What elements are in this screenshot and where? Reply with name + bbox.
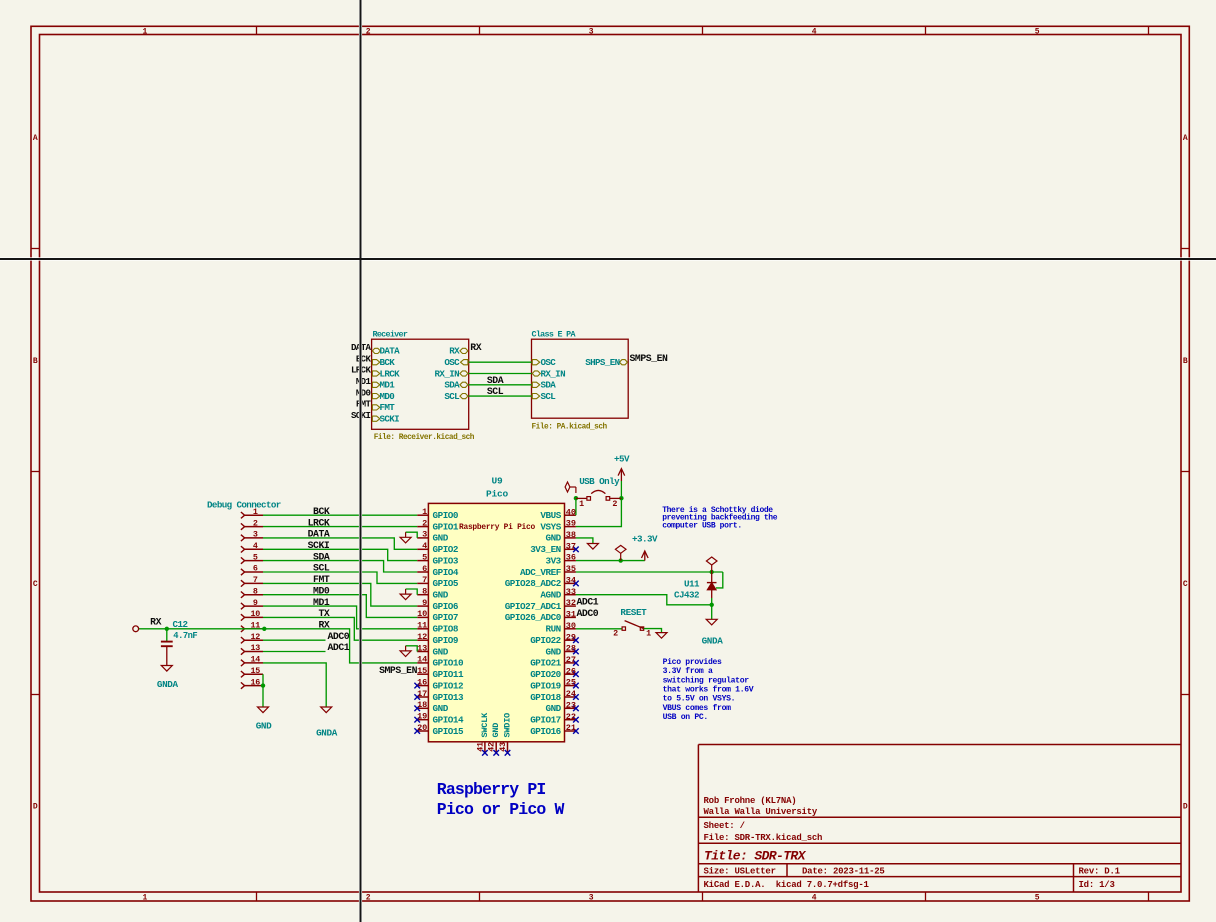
svg-text:39: 39 [566, 519, 576, 529]
svg-text:Raspberry Pi Pico: Raspberry Pi Pico [459, 523, 535, 532]
svg-text:6: 6 [422, 564, 427, 574]
svg-text:ADC0: ADC0 [328, 631, 350, 642]
svg-text:SDA: SDA [487, 375, 504, 386]
svg-text:3: 3 [253, 530, 258, 540]
svg-text:GPIO9: GPIO9 [433, 635, 459, 646]
svg-text:CJ432: CJ432 [674, 589, 699, 600]
svg-text:OSC: OSC [541, 357, 557, 368]
svg-text:MD0: MD0 [313, 585, 330, 596]
svg-text:GNDA: GNDA [702, 635, 724, 646]
svg-text:Pico or Pico W: Pico or Pico W [437, 800, 565, 819]
svg-text:8: 8 [422, 587, 427, 597]
svg-text:File: Receiver.kicad_sch: File: Receiver.kicad_sch [374, 434, 475, 442]
svg-text:SCKI: SCKI [308, 540, 330, 551]
svg-text:ADC0: ADC0 [577, 608, 599, 619]
svg-text:BCK: BCK [313, 506, 330, 517]
svg-text:RX: RX [449, 346, 460, 357]
svg-text:35: 35 [566, 564, 576, 574]
svg-text:9: 9 [253, 598, 258, 608]
svg-text:GNDA: GNDA [316, 728, 338, 739]
svg-text:GPIO10: GPIO10 [433, 658, 464, 669]
svg-text:1: 1 [646, 629, 651, 639]
svg-text:GPIO4: GPIO4 [433, 567, 459, 578]
svg-text:B: B [1183, 357, 1188, 366]
svg-text:GPIO2: GPIO2 [433, 544, 459, 555]
svg-text:MD1: MD1 [356, 376, 372, 387]
svg-text:Rob Frohne (KL7NA): Rob Frohne (KL7NA) [704, 796, 797, 806]
svg-text:ADC_VREF: ADC_VREF [520, 567, 562, 578]
svg-text:40: 40 [566, 507, 576, 517]
svg-text:BCK: BCK [380, 357, 396, 368]
svg-text:VSYS: VSYS [540, 521, 561, 532]
svg-text:Date: 2023-11-25: Date: 2023-11-25 [802, 867, 885, 877]
svg-text:GND: GND [433, 590, 449, 601]
svg-text:GND: GND [491, 723, 501, 738]
svg-text:RX_IN: RX_IN [541, 368, 566, 379]
svg-text:AGND: AGND [540, 590, 561, 601]
svg-text:2: 2 [253, 518, 258, 528]
svg-text:USB on PC.: USB on PC. [663, 713, 708, 722]
svg-text:B: B [33, 357, 38, 366]
svg-text:SDA: SDA [313, 551, 330, 562]
svg-text:GPIO22: GPIO22 [530, 635, 561, 646]
svg-text:GPIO1: GPIO1 [433, 521, 459, 532]
svg-text:C12: C12 [173, 619, 188, 630]
svg-text:31: 31 [566, 610, 576, 620]
svg-text:37: 37 [566, 541, 576, 551]
svg-text:2: 2 [366, 27, 371, 36]
svg-text:DATA: DATA [308, 529, 330, 540]
svg-text:SCL: SCL [444, 391, 460, 402]
svg-text:SMPS_EN: SMPS_EN [630, 353, 669, 364]
svg-text:29: 29 [566, 632, 576, 642]
svg-text:switching regulator: switching regulator [663, 676, 750, 685]
svg-text:U9: U9 [491, 476, 503, 487]
svg-text:GND: GND [433, 533, 449, 544]
svg-text:RESET: RESET [620, 607, 647, 618]
svg-text:2: 2 [422, 518, 427, 528]
svg-text:MD1: MD1 [380, 380, 396, 391]
svg-text:24: 24 [566, 689, 576, 699]
svg-text:GPIO18: GPIO18 [530, 692, 561, 703]
svg-text:SWDIO: SWDIO [503, 713, 513, 738]
svg-text:GND: GND [433, 646, 449, 657]
svg-text:28: 28 [566, 644, 576, 654]
svg-text:FMT: FMT [313, 574, 330, 585]
svg-text:4: 4 [422, 541, 427, 551]
svg-text:3V3: 3V3 [545, 555, 561, 566]
svg-text:SDA: SDA [541, 380, 557, 391]
svg-text:GPIO0: GPIO0 [433, 510, 459, 521]
svg-text:SDA: SDA [444, 380, 460, 391]
svg-text:Debug Connector: Debug Connector [207, 499, 281, 510]
svg-text:GND: GND [433, 703, 449, 714]
svg-text:SCL: SCL [313, 563, 330, 574]
svg-text:A: A [1183, 134, 1188, 143]
svg-text:3: 3 [589, 894, 594, 903]
svg-text:5: 5 [253, 552, 258, 562]
svg-text:FMT: FMT [356, 399, 372, 410]
svg-text:43: 43 [498, 742, 508, 752]
svg-text:4: 4 [812, 27, 817, 36]
svg-text:GNDA: GNDA [157, 679, 179, 690]
svg-text:RX: RX [150, 617, 161, 628]
svg-text:ADC1: ADC1 [577, 597, 599, 608]
svg-text:USB Only: USB Only [579, 476, 620, 487]
svg-text:2: 2 [366, 894, 371, 903]
svg-text:GPIO20: GPIO20 [530, 669, 561, 680]
svg-text:Walla Walla University: Walla Walla University [704, 807, 818, 817]
svg-text:GPIO11: GPIO11 [433, 669, 464, 680]
svg-text:5: 5 [422, 552, 427, 562]
svg-text:GPIO6: GPIO6 [433, 601, 459, 612]
svg-text:3: 3 [589, 27, 594, 36]
svg-text:33: 33 [566, 587, 576, 597]
svg-text:2: 2 [613, 629, 618, 639]
svg-text:20: 20 [417, 723, 427, 733]
svg-text:C: C [33, 580, 38, 589]
svg-text:10: 10 [250, 609, 260, 619]
svg-text:15: 15 [250, 666, 260, 676]
svg-text:Receiver: Receiver [373, 330, 408, 340]
svg-text:SCKI: SCKI [380, 414, 400, 425]
svg-text:RUN: RUN [545, 624, 560, 635]
svg-text:GPIO5: GPIO5 [433, 578, 459, 589]
svg-text:2: 2 [612, 499, 617, 509]
svg-text:4: 4 [812, 894, 817, 903]
svg-text:GPIO3: GPIO3 [433, 555, 459, 566]
svg-text:GPIO12: GPIO12 [433, 680, 464, 691]
svg-text:Raspberry PI: Raspberry PI [437, 780, 546, 799]
svg-text:19: 19 [417, 712, 427, 722]
svg-text:13: 13 [417, 643, 427, 653]
svg-text:RX: RX [318, 620, 329, 631]
svg-text:File: PA.kicad_sch: File: PA.kicad_sch [532, 423, 608, 431]
svg-text:D: D [1183, 803, 1188, 812]
svg-text:C: C [1183, 580, 1188, 589]
svg-text:SCL: SCL [487, 386, 504, 397]
svg-text:22: 22 [566, 712, 576, 722]
svg-text:SCL: SCL [541, 391, 557, 402]
svg-text:GPIO16: GPIO16 [530, 726, 561, 737]
svg-text:Class E PA: Class E PA [532, 330, 577, 340]
svg-text:VBUS comes from: VBUS comes from [663, 704, 732, 713]
svg-text:14: 14 [417, 655, 427, 665]
svg-text:7: 7 [253, 575, 258, 585]
svg-text:30: 30 [566, 621, 576, 631]
svg-text:GPIO19: GPIO19 [530, 680, 561, 691]
svg-text:GPIO21: GPIO21 [530, 658, 561, 669]
svg-text:A: A [33, 134, 38, 143]
svg-text:11: 11 [250, 621, 260, 631]
svg-text:9: 9 [422, 598, 427, 608]
svg-text:DATA: DATA [380, 346, 401, 357]
svg-text:File: SDR-TRX.kicad_sch: File: SDR-TRX.kicad_sch [704, 833, 823, 843]
svg-text:computer USB port.: computer USB port. [662, 521, 742, 530]
svg-text:TX: TX [318, 608, 329, 619]
svg-text:LRCK: LRCK [308, 517, 330, 528]
svg-text:16: 16 [250, 677, 260, 687]
svg-text:VBUS: VBUS [540, 510, 561, 521]
svg-text:27: 27 [566, 655, 576, 665]
svg-text:1: 1 [422, 507, 427, 517]
svg-text:GPIO14: GPIO14 [433, 715, 464, 726]
svg-text:12: 12 [250, 632, 260, 642]
svg-text:GPIO15: GPIO15 [433, 726, 464, 737]
svg-text:41: 41 [475, 742, 485, 752]
svg-text:Sheet: /: Sheet: / [704, 821, 745, 831]
svg-text:25: 25 [566, 678, 576, 688]
svg-text:KiCad E.D.A. kicad 7.0.7+dfsg: KiCad E.D.A. kicad 7.0.7+dfsg-1 [704, 880, 870, 890]
svg-text:Title: SDR-TRX: Title: SDR-TRX [704, 849, 807, 864]
svg-text:GPIO27_ADC1: GPIO27_ADC1 [505, 601, 562, 612]
svg-text:U11: U11 [684, 578, 700, 589]
svg-text:4: 4 [253, 541, 258, 551]
svg-text:MD1: MD1 [313, 597, 330, 608]
svg-text:14: 14 [250, 655, 260, 665]
svg-text:26: 26 [566, 666, 576, 676]
svg-text:Size: USLetter: Size: USLetter [704, 867, 776, 877]
svg-text:36: 36 [566, 553, 576, 563]
svg-text:OSC: OSC [444, 357, 460, 368]
svg-text:GPIO8: GPIO8 [433, 624, 459, 635]
svg-text:Pico provides: Pico provides [663, 658, 722, 667]
svg-text:FMT: FMT [380, 402, 396, 413]
svg-text:SMPS_EN: SMPS_EN [379, 665, 418, 676]
svg-text:23: 23 [566, 700, 576, 710]
svg-text:SHPS_EN: SHPS_EN [585, 357, 619, 368]
svg-text:RX_IN: RX_IN [435, 368, 460, 379]
svg-text:Pico: Pico [486, 489, 509, 500]
svg-text:18: 18 [417, 700, 427, 710]
svg-text:3V3_EN: 3V3_EN [530, 544, 561, 555]
svg-text:GPIO28_ADC2: GPIO28_ADC2 [505, 578, 562, 589]
svg-text:LRCK: LRCK [380, 368, 401, 379]
svg-text:11: 11 [417, 621, 427, 631]
svg-text:5: 5 [1035, 894, 1040, 903]
svg-text:GND: GND [256, 721, 272, 732]
svg-text:1: 1 [253, 507, 258, 517]
svg-text:D: D [33, 803, 38, 812]
svg-text:16: 16 [417, 677, 427, 687]
svg-text:SWCLK: SWCLK [480, 712, 490, 738]
svg-text:GND: GND [545, 703, 561, 714]
svg-text:GPIO26_ADC0: GPIO26_ADC0 [505, 612, 562, 623]
svg-text:+5V: +5V [614, 454, 630, 465]
svg-text:1: 1 [142, 894, 147, 903]
svg-text:8: 8 [253, 586, 258, 596]
svg-text:38: 38 [566, 530, 576, 540]
svg-text:GPIO7: GPIO7 [433, 612, 459, 623]
svg-text:13: 13 [250, 643, 260, 653]
svg-text:17: 17 [417, 689, 427, 699]
svg-text:1: 1 [579, 499, 584, 509]
svg-text:GPIO13: GPIO13 [433, 692, 464, 703]
svg-text:6: 6 [253, 564, 258, 574]
svg-text:ADC1: ADC1 [328, 642, 350, 653]
svg-text:GND: GND [545, 533, 561, 544]
svg-text:15: 15 [417, 666, 427, 676]
svg-text:42: 42 [487, 742, 497, 752]
svg-text:5: 5 [1035, 27, 1040, 36]
svg-text:MD0: MD0 [380, 391, 395, 402]
svg-text:1: 1 [142, 27, 147, 36]
svg-text:MD0: MD0 [356, 387, 371, 398]
svg-text:Id: 1/3: Id: 1/3 [1079, 880, 1115, 890]
svg-text:BCK: BCK [356, 353, 372, 364]
svg-text:+3.3V: +3.3V [632, 533, 658, 544]
svg-text:to 5.5V on VSYS.: to 5.5V on VSYS. [663, 695, 736, 704]
svg-text:Rev: D.1: Rev: D.1 [1079, 867, 1121, 877]
svg-text:32: 32 [566, 598, 576, 608]
svg-text:GPIO17: GPIO17 [530, 715, 561, 726]
svg-text:that works from 1.6V: that works from 1.6V [663, 686, 754, 695]
svg-text:34: 34 [566, 576, 576, 586]
svg-text:RX: RX [470, 342, 481, 353]
svg-text:21: 21 [566, 723, 576, 733]
svg-text:7: 7 [422, 575, 427, 585]
svg-text:3.3V from a: 3.3V from a [663, 667, 713, 676]
svg-text:4.7nF: 4.7nF [173, 631, 197, 641]
svg-text:10: 10 [417, 609, 427, 619]
svg-text:GND: GND [545, 646, 561, 657]
svg-text:12: 12 [417, 632, 427, 642]
svg-text:3: 3 [422, 530, 427, 540]
